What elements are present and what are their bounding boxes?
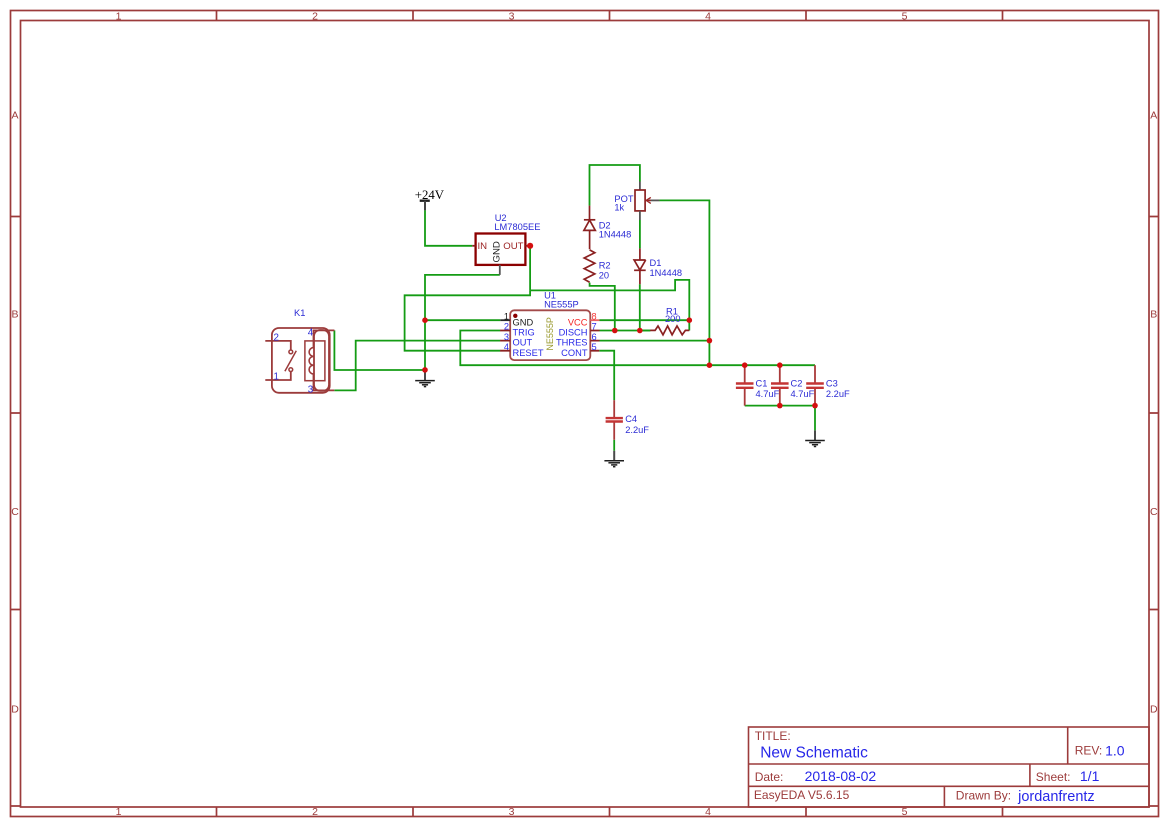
svg-text:2: 2 [312, 10, 318, 22]
junction DISCH row / R2 branch [612, 328, 618, 334]
svg-text:200: 200 [665, 314, 681, 324]
svg-text:4.7uF: 4.7uF [791, 389, 815, 399]
wire U2 GND return to ground [425, 275, 500, 370]
timer U1 box [500, 290, 599, 360]
wire VCC row [600, 319, 690, 321]
svg-text:C: C [1150, 506, 1158, 518]
ground (under C4) [604, 451, 624, 467]
svg-text:1: 1 [274, 372, 279, 383]
svg-text:C1: C1 [756, 379, 768, 389]
svg-text:D: D [1150, 703, 1158, 715]
svg-text:20: 20 [599, 270, 609, 280]
pin1 marker dot [513, 314, 517, 318]
svg-text:4.7uF: 4.7uF [756, 389, 780, 399]
svg-text:R2: R2 [599, 261, 611, 271]
wire TRIG to bottom rail [460, 331, 815, 366]
svg-text:GND: GND [513, 317, 534, 327]
wire OUT jog to RESET [405, 290, 530, 350]
svg-text:Drawn By:: Drawn By: [956, 789, 1011, 803]
resistor R1 [650, 326, 689, 335]
svg-text:1N4448: 1N4448 [650, 268, 683, 278]
wire caps bottom rail to ground [745, 406, 815, 431]
svg-text:VCC: VCC [568, 317, 588, 327]
svg-text:jordanfrentz: jordanfrentz [1017, 789, 1095, 805]
svg-text:1k: 1k [614, 203, 624, 213]
junction at U2 OUT node [527, 243, 533, 249]
svg-text:B: B [1150, 308, 1157, 320]
junction caps ground rail / C3 [812, 403, 818, 409]
svg-text:4: 4 [705, 806, 711, 818]
junction bottom rail / wiper riser [707, 362, 713, 368]
junction VCC row / R1 right [687, 317, 693, 323]
power flag +24V [415, 188, 445, 211]
svg-text:3: 3 [509, 806, 515, 818]
svg-text:+24V: +24V [415, 188, 445, 202]
wire THRES row [600, 340, 710, 342]
relay K1 [265, 328, 334, 393]
svg-text:Sheet:: Sheet: [1036, 770, 1071, 784]
svg-text:New Schematic: New Schematic [760, 744, 868, 761]
junction bottom rail / C2 [777, 362, 783, 368]
svg-text:LM7805EE: LM7805EE [494, 222, 540, 232]
svg-text:1: 1 [116, 10, 122, 22]
diode D2 [584, 206, 595, 250]
capacitor C1 [736, 365, 780, 405]
svg-text:A: A [11, 110, 18, 122]
resistor R2 [584, 250, 595, 282]
svg-text:1: 1 [504, 311, 509, 321]
capacitor C3 [806, 365, 850, 405]
svg-text:IN: IN [478, 241, 488, 252]
svg-text:RESET: RESET [513, 348, 544, 358]
junction THRES row / wiper riser [707, 338, 713, 344]
diode D1 [634, 248, 646, 284]
regulator U2 box [472, 213, 540, 275]
wire relay pin4 to ground node [334, 330, 425, 370]
svg-text:6: 6 [592, 332, 597, 342]
svg-text:DISCH: DISCH [559, 328, 588, 338]
svg-text:4: 4 [504, 342, 509, 352]
svg-text:2: 2 [274, 332, 279, 343]
svg-text:D: D [11, 703, 19, 715]
svg-text:C3: C3 [826, 379, 838, 389]
svg-text:TITLE:: TITLE: [755, 729, 791, 743]
svg-text:1/1: 1/1 [1080, 768, 1100, 784]
svg-text:2: 2 [312, 806, 318, 818]
svg-text:C4: C4 [625, 414, 637, 424]
wire OUT jog to VCC staircase [530, 280, 689, 320]
wire CONT to C4 [599, 351, 614, 401]
svg-text:NE555P: NE555P [544, 300, 579, 310]
svg-text:THRES: THRES [556, 338, 588, 348]
potentiometer POT [614, 182, 659, 221]
junction GND net at U1 pin1 row [422, 317, 428, 323]
svg-text:C2: C2 [791, 379, 803, 389]
wire relay pin3 to U1 OUT [334, 341, 500, 391]
svg-text:2018-08-02: 2018-08-02 [805, 768, 877, 784]
wire GND row to U1 pin1 [425, 319, 500, 321]
svg-text:5: 5 [592, 342, 597, 352]
wire U2 OUT down [529, 246, 531, 291]
svg-text:2: 2 [504, 322, 509, 332]
wire C4 bottom [613, 440, 615, 451]
svg-text:2.2uF: 2.2uF [826, 389, 850, 399]
junction caps ground rail / C2 [777, 403, 783, 409]
svg-text:GND: GND [491, 241, 502, 262]
svg-text:K1: K1 [294, 308, 305, 318]
svg-text:1: 1 [116, 806, 122, 818]
svg-text:3: 3 [308, 384, 314, 395]
wire POT wiper to THRES/rail [659, 200, 709, 365]
svg-text:1.0: 1.0 [1105, 743, 1125, 759]
svg-text:Date:: Date: [755, 770, 784, 784]
wire DISCH row [600, 330, 651, 332]
svg-text:TRIG: TRIG [513, 328, 535, 338]
svg-text:CONT: CONT [561, 348, 588, 358]
wire R1 right riser [688, 320, 690, 330]
svg-text:OUT: OUT [513, 338, 533, 348]
svg-text:7: 7 [592, 322, 597, 332]
junction DISCH row / D1 branch [637, 328, 643, 334]
svg-text:8: 8 [592, 311, 597, 321]
wire R1 left [640, 330, 651, 332]
svg-text:EasyEDA V5.6.15: EasyEDA V5.6.15 [754, 788, 850, 802]
svg-text:3: 3 [504, 332, 509, 342]
svg-text:A: A [1150, 110, 1157, 122]
svg-text:REV:: REV: [1075, 744, 1103, 758]
capacitor C2 [771, 365, 815, 405]
svg-text:2.2uF: 2.2uF [625, 425, 649, 435]
capacitor C4 [606, 400, 650, 440]
wire POT bottom to D1 [639, 220, 641, 248]
wire +24V down and to U2 IN [425, 210, 472, 245]
junction GND net at ground symbol [422, 367, 428, 373]
wire D1 riser [639, 284, 641, 330]
svg-text:4: 4 [308, 327, 314, 338]
junction bottom rail / C1 [742, 362, 748, 368]
wire R2 riser [590, 283, 615, 331]
svg-text:C: C [11, 506, 19, 518]
svg-text:D1: D1 [650, 258, 662, 268]
svg-text:NE555P: NE555P [545, 317, 555, 351]
wire top rail D2/POT [590, 165, 640, 206]
svg-text:3: 3 [509, 10, 515, 22]
svg-text:1N4448: 1N4448 [599, 230, 632, 240]
U1 pin stubs left [500, 319, 510, 321]
ground (under C3) [805, 430, 825, 446]
U1 pin stubs right [590, 319, 599, 321]
svg-text:5: 5 [902, 10, 908, 22]
ground (near K1/U2) [415, 370, 435, 387]
svg-text:OUT: OUT [503, 241, 523, 252]
title block [749, 727, 1150, 807]
svg-text:4: 4 [705, 10, 711, 22]
svg-text:B: B [11, 308, 18, 320]
